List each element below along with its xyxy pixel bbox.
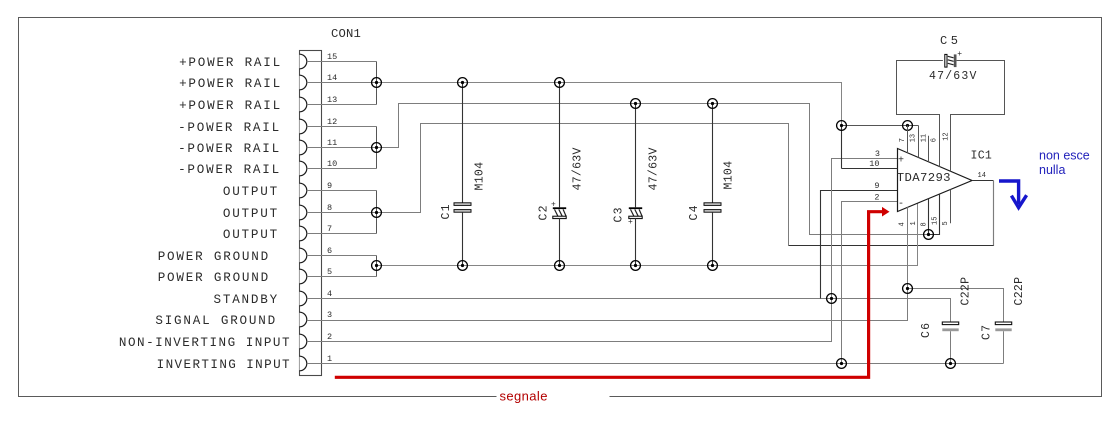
svg-text:+: + <box>628 218 633 227</box>
wire +rail link to pins 7 and 13 <box>842 125 919 127</box>
node junction C3 bottom <box>631 261 641 271</box>
wire bracket pins 6-5 <box>376 256 378 277</box>
wire -power rail <box>377 104 929 235</box>
node junction pin 14 bracket <box>372 78 382 88</box>
svg-text:C22P: C22P <box>959 277 972 306</box>
node junction C4 top <box>708 99 718 109</box>
svg-text:POWER GROUND: POWER GROUND <box>158 271 270 285</box>
node junction pin 8 bracket <box>372 208 382 218</box>
node junction C6 C7 bottom <box>946 359 956 369</box>
svg-text:6: 6 <box>327 246 332 256</box>
capacitor C2 <box>551 83 566 266</box>
wire IC pin 12 to C5 right <box>951 61 1005 172</box>
wire inverting input net <box>307 363 951 365</box>
wire +power rail <box>377 83 842 126</box>
svg-text:47/63V: 47/63V <box>648 147 661 190</box>
blue annotation arrow <box>999 181 1019 204</box>
pin 14 arc <box>300 75 307 90</box>
wire bracket pins 9-7 <box>376 191 378 234</box>
wire C6 C7 bottom link <box>951 363 1004 365</box>
svg-text:47/63V: 47/63V <box>572 147 585 190</box>
wire pin 5 to bracket <box>307 276 377 278</box>
pin 4 arc <box>300 291 307 306</box>
wire IC pin 6 to C5 left <box>897 61 943 167</box>
svg-text:1: 1 <box>910 221 918 225</box>
svg-text:47/63V: 47/63V <box>929 70 978 83</box>
wire non-inverting input net to IC pin 3 <box>307 159 898 342</box>
wire pin 13 to bracket <box>307 104 377 106</box>
svg-text:12: 12 <box>943 132 951 140</box>
svg-text:1: 1 <box>327 354 332 364</box>
svg-text:C22P: C22P <box>1013 277 1026 306</box>
wire output net riser <box>377 124 789 246</box>
svg-text:15: 15 <box>327 52 337 62</box>
wire IC pin 10 <box>842 168 898 170</box>
node junction standby riser crossing <box>827 294 837 304</box>
svg-text:5: 5 <box>942 221 950 225</box>
svg-text:+: + <box>898 155 904 166</box>
svg-text:C1: C1 <box>440 203 453 219</box>
wire pin 15 to bracket <box>307 61 377 63</box>
wire pin 11 to bracket <box>307 147 377 149</box>
node junction B pin 7 <box>903 121 913 131</box>
wire IC pin 4 to C7 <box>908 289 1004 323</box>
svg-text:STANDBY: STANDBY <box>213 293 279 307</box>
blue annotation arrowhead chevron <box>1011 195 1026 207</box>
svg-text:8: 8 <box>921 222 929 226</box>
svg-text:OUTPUT: OUTPUT <box>223 185 279 199</box>
wire pin 10 to bracket <box>307 168 377 170</box>
svg-text:C3: C3 <box>613 206 626 222</box>
svg-text:non esce: non esce <box>1039 149 1090 163</box>
svg-text:-POWER RAIL: -POWER RAIL <box>178 121 281 135</box>
svg-text:10: 10 <box>869 159 879 169</box>
wire power ground rail <box>377 203 918 266</box>
pin 3 arc <box>300 312 307 327</box>
pin 11 arc <box>300 140 307 155</box>
wire output net lower run to pin 14 <box>789 181 994 246</box>
node junction ground bracket <box>372 261 382 271</box>
svg-text:9: 9 <box>327 181 332 191</box>
pin 9 arc <box>300 183 307 198</box>
svg-text:-: - <box>898 199 904 210</box>
svg-text:+POWER RAIL: +POWER RAIL <box>179 77 282 91</box>
wire pin 12 to bracket <box>307 126 377 128</box>
node junction C2 top <box>555 78 565 88</box>
pin 7 arc <box>300 226 307 241</box>
node junction pin 11 bracket <box>372 143 382 153</box>
svg-text:-POWER RAIL: -POWER RAIL <box>178 163 281 177</box>
svg-text:5: 5 <box>327 267 332 277</box>
svg-text:+: + <box>957 50 962 59</box>
pin 5 arc <box>300 269 307 284</box>
svg-text:segnale: segnale <box>500 389 548 404</box>
svg-text:+: + <box>551 201 556 210</box>
svg-text:7: 7 <box>899 138 907 142</box>
wire IC pin 2 riser <box>842 202 898 364</box>
wire IC pin 5 stub <box>950 190 952 224</box>
capacitor C1 <box>454 83 471 266</box>
capacitor C5 <box>945 50 963 67</box>
svg-text:12: 12 <box>327 117 337 127</box>
svg-text:OUTPUT: OUTPUT <box>223 228 279 242</box>
svg-text:3: 3 <box>327 310 332 320</box>
capacitor C3 <box>628 104 642 266</box>
svg-text:10: 10 <box>327 159 337 169</box>
wire IC pin 14 output stub <box>972 180 994 182</box>
pin 15 arc <box>300 54 307 69</box>
svg-text:-POWER RAIL: -POWER RAIL <box>178 142 281 156</box>
svg-text:nulla: nulla <box>1039 163 1065 177</box>
node junction C3 top <box>631 99 641 109</box>
wire pin 7 to bracket <box>307 233 377 235</box>
wire pin 6 to bracket <box>307 255 377 257</box>
pin 10 arc <box>300 161 307 176</box>
svg-text:INVERTING INPUT: INVERTING INPUT <box>157 358 291 372</box>
pin 12 arc <box>300 119 307 134</box>
wire IC pin 10 riser from junction A <box>841 126 843 169</box>
wire standby net to C6 <box>307 299 951 323</box>
svg-text:M104: M104 <box>723 161 736 190</box>
capacitor C7 <box>995 322 1011 364</box>
svg-text:TDA7293: TDA7293 <box>897 171 951 185</box>
node junction C2 bottom <box>555 261 565 271</box>
svg-text:3: 3 <box>875 149 880 159</box>
pin 1 arc <box>300 356 307 371</box>
node junction -power pins 8 and 15 <box>924 230 934 240</box>
svg-text:CON1: CON1 <box>331 27 361 41</box>
wire standby riser to IC pin 9 <box>821 191 898 299</box>
svg-text:OUTPUT: OUTPUT <box>223 207 279 221</box>
capacitor C4 <box>704 104 721 266</box>
node junction IC pin 4 / C7 <box>903 284 913 294</box>
node junction A <box>837 121 847 131</box>
node junction C1 bottom <box>458 261 468 271</box>
op-amp IC1 triangle TDA7293 <box>898 149 973 212</box>
svg-text:13: 13 <box>327 95 337 105</box>
svg-text:+POWER RAIL: +POWER RAIL <box>179 99 282 113</box>
svg-text:C5: C5 <box>940 34 961 48</box>
svg-text:7: 7 <box>327 224 332 234</box>
svg-text:SIGNAL GROUND: SIGNAL GROUND <box>155 314 277 328</box>
pin 13 arc <box>300 97 307 112</box>
wire IC pin 8 <box>928 199 930 235</box>
svg-text:11: 11 <box>327 138 337 148</box>
svg-text:IC1: IC1 <box>971 150 993 163</box>
svg-text:6: 6 <box>931 138 939 142</box>
node junction C1 top <box>458 78 468 88</box>
wire signal ground net <box>307 289 908 321</box>
svg-text:4: 4 <box>899 222 907 226</box>
svg-text:C6: C6 <box>920 322 933 338</box>
red annotation arrowhead <box>882 207 890 217</box>
pin 2 arc <box>300 334 307 349</box>
svg-text:C7: C7 <box>981 324 994 340</box>
wire pin 9 to bracket <box>307 190 377 192</box>
svg-text:M104: M104 <box>474 162 487 191</box>
wire IC pin 4 <box>907 207 909 288</box>
svg-text:POWER GROUND: POWER GROUND <box>158 250 270 264</box>
svg-text:2: 2 <box>874 192 879 202</box>
node junction inverting input <box>837 359 847 369</box>
svg-text:4: 4 <box>327 289 332 299</box>
wire IC pin 15 <box>929 194 940 234</box>
pin 6 arc <box>300 248 307 263</box>
connector CON1 body <box>300 51 322 376</box>
wire IC pin 11 stub <box>928 136 930 162</box>
svg-text:C4: C4 <box>688 204 701 220</box>
svg-text:13: 13 <box>910 134 918 142</box>
svg-text:NON-INVERTING INPUT: NON-INVERTING INPUT <box>119 336 291 350</box>
svg-text:15: 15 <box>932 217 940 225</box>
svg-text:14: 14 <box>327 73 337 83</box>
svg-text:+POWER RAIL: +POWER RAIL <box>179 56 282 70</box>
wire IC pin 7 <box>907 126 909 154</box>
pin 8 arc <box>300 205 307 220</box>
svg-text:9: 9 <box>874 181 879 191</box>
svg-text:8: 8 <box>327 203 332 213</box>
wire pin 14 output vertical <box>993 181 995 246</box>
wire bracket pins 15-13 <box>376 62 378 105</box>
frame gap for segnale label <box>497 390 610 402</box>
capacitor C6 <box>942 322 958 364</box>
wire pin 8 to bracket <box>307 212 377 214</box>
svg-text:2: 2 <box>327 332 332 342</box>
wire pin 14 to bracket <box>307 82 377 84</box>
svg-text:14: 14 <box>978 172 986 180</box>
svg-text:11: 11 <box>921 134 929 142</box>
svg-text:C2: C2 <box>538 204 551 220</box>
wire bracket pins 12-10 <box>376 127 378 169</box>
node junction C4 bottom <box>708 261 718 271</box>
wire IC pin 13 <box>918 126 920 158</box>
red annotation signal path <box>335 212 883 378</box>
